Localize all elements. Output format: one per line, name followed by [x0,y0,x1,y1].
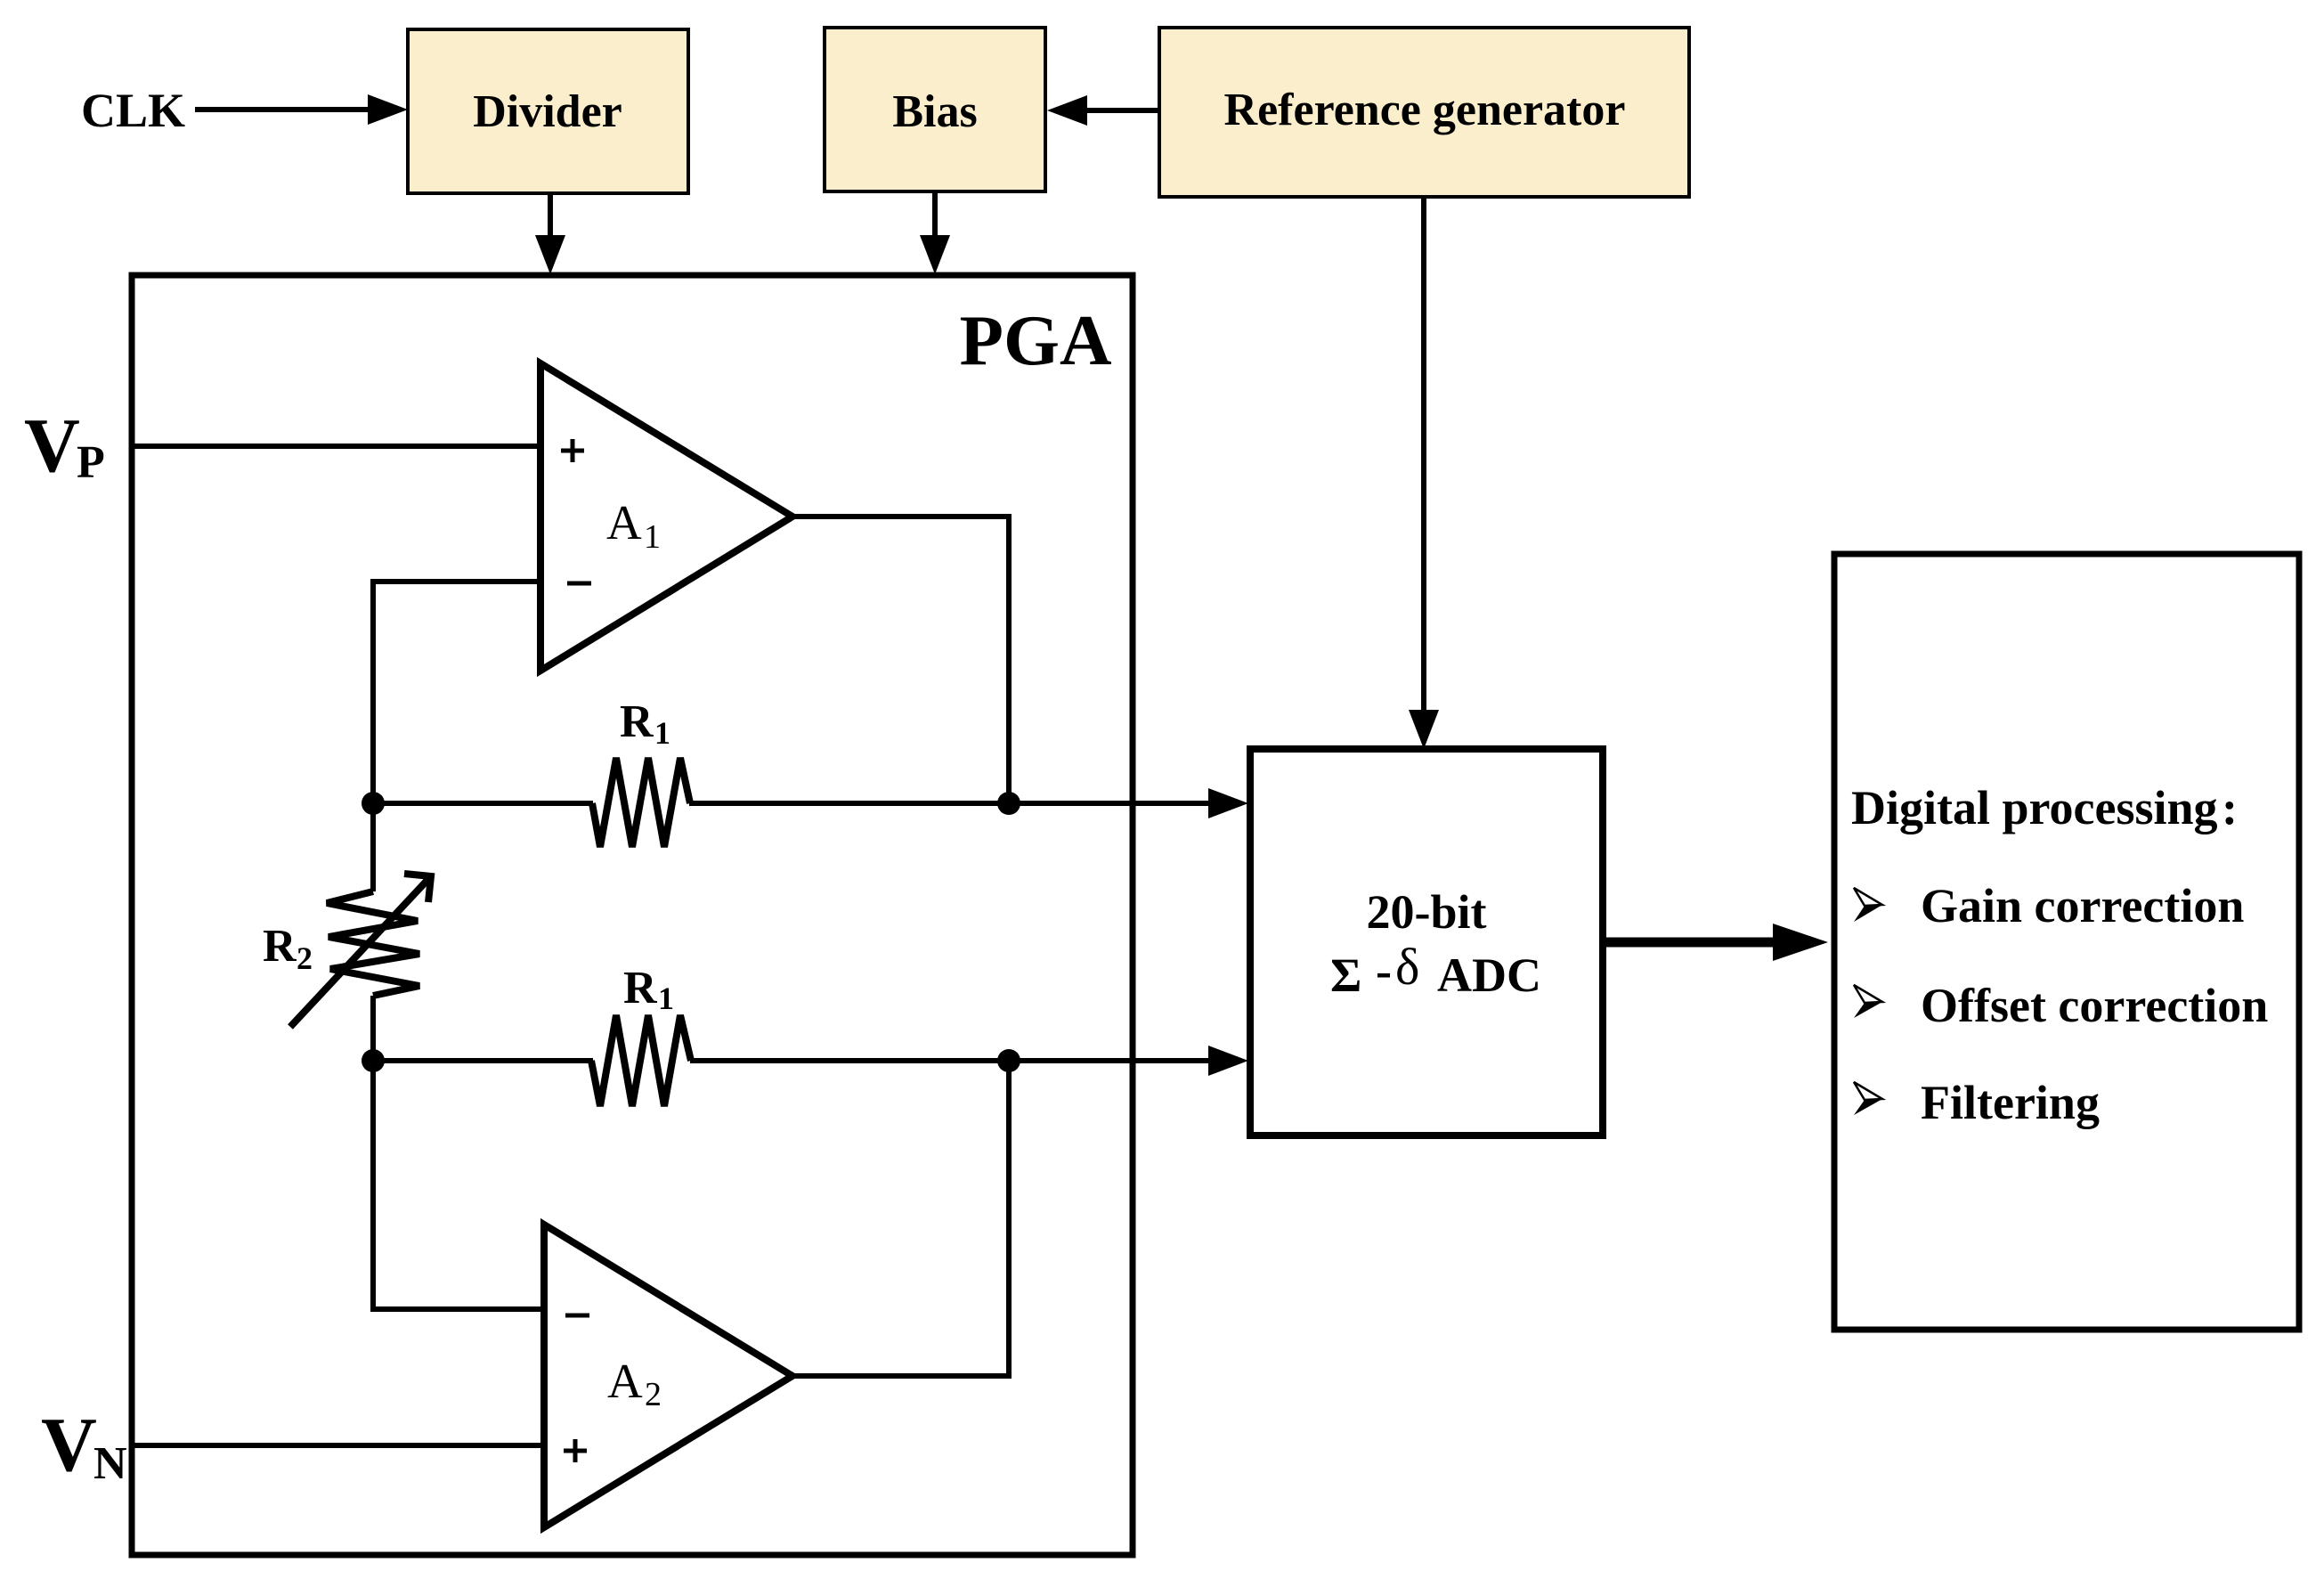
svg-text:1: 1 [644,518,661,556]
arrowhead wire2 into ADC [1208,1046,1248,1076]
ADC block [1250,749,1603,1135]
svg-text:Σ: Σ [1330,948,1361,1002]
wire Reference generator to ADC [1421,197,1426,712]
svg-text:Offset correction: Offset correction [1921,979,2268,1032]
svg-text:Divider: Divider [473,86,622,137]
arrowhead wire1 into ADC [1208,788,1248,818]
svg-text:A: A [607,1354,643,1408]
svg-text:R: R [620,696,654,747]
svg-text:Filtering: Filtering [1921,1076,2100,1129]
wire A1 feedback to node A [373,582,540,891]
svg-text:V: V [41,1401,97,1487]
svg-text:2: 2 [297,940,313,976]
svg-text:Digital processing :: Digital processing : [1851,781,2238,834]
svg-text:2: 2 [645,1376,662,1413]
op-amp A1 [540,363,792,671]
svg-text:Reference generator: Reference generator [1224,85,1626,135]
svg-text:δ: δ [1395,938,1419,996]
arrowhead into Bias [1047,95,1087,126]
svg-text:V: V [24,402,80,488]
arrowhead ADC output [1773,924,1828,961]
arrowhead into ADC [1409,710,1439,749]
PGA block boundary [132,275,1133,1555]
node junction dot A1out-wire1 [997,792,1020,815]
svg-text:Bias: Bias [892,86,977,137]
R2 variable arrow [290,878,429,1027]
svg-text:Gain correction: Gain correction [1921,879,2244,932]
resistor R2 (variable) [327,891,419,996]
op-amp A2 [544,1225,792,1527]
svg-text:R: R [263,921,297,972]
svg-text:-: - [1376,944,1392,997]
wire node B to ADC with resistor R1 bottom [373,1058,593,1063]
bullet 1 [1854,888,1882,906]
node A junction dot [362,792,385,815]
wire VP to A1 [132,444,540,449]
svg-text:1: 1 [654,715,670,751]
A2 minus input marker [565,1314,589,1318]
svg-text:R: R [623,963,658,1013]
A1 minus input marker [567,582,591,586]
reference generator block U3 [1159,28,1689,197]
node B junction dot [362,1049,385,1072]
svg-text:A: A [606,495,642,549]
wire Bias to PGA [932,191,938,237]
arrowhead Bias to PGA [920,235,950,274]
svg-text:20-bit: 20-bit [1367,885,1487,939]
wire VN to A2 [132,1443,544,1448]
svg-text:N: N [93,1438,127,1489]
wire A2 output [792,1061,1009,1376]
A1 plus input marker [561,449,584,453]
digital processing block [1834,554,2299,1330]
svg-text:P: P [77,437,105,488]
wire A2 feedback to node B [373,996,544,1309]
wire A1 output [792,517,1009,803]
wire CLK to Divider [195,107,370,112]
A2 plus input marker [564,1449,587,1453]
wire node A to ADC with resistor R1 top [373,801,593,806]
bullet 3 [1854,1082,1882,1100]
node junction dot A2out-wire2 [997,1049,1020,1072]
wire Divider to PGA [548,193,553,237]
svg-text:PGA: PGA [960,300,1112,380]
divider block U1 [408,29,688,193]
arrowhead Divider to PGA [535,235,565,274]
wire Reference generator to Bias [1085,108,1159,113]
bias block U2 [825,28,1045,191]
bullet 2 [1854,985,1882,1003]
arrowhead into Divider [368,94,408,125]
svg-text:ADC: ADC [1437,948,1541,1002]
svg-text:CLK: CLK [81,84,185,137]
wire ADC output (thick) [1604,938,1776,948]
svg-text:1: 1 [658,981,674,1016]
